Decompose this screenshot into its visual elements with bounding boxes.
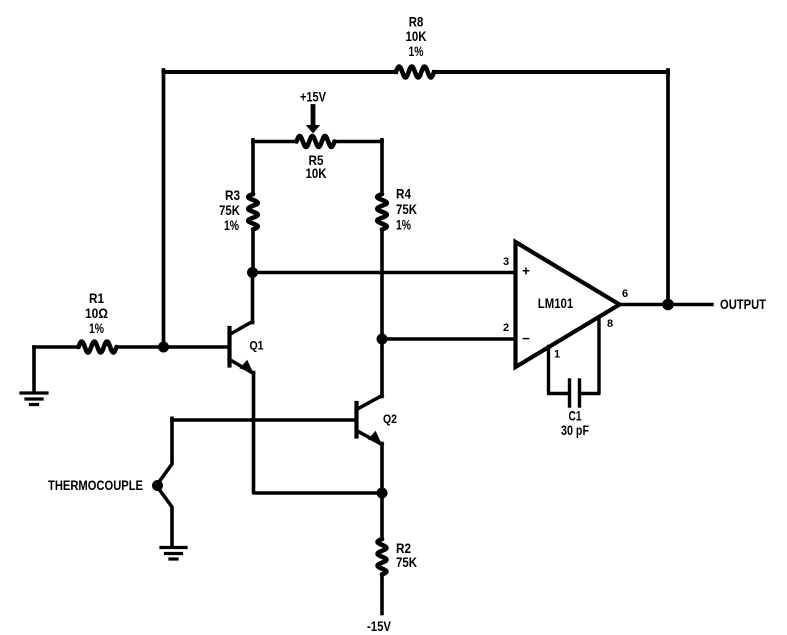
resistor R5 — [297, 136, 335, 147]
wire R2 top lead — [380, 493, 384, 539]
R5 value labels — [306, 153, 327, 181]
svg-text:75K: 75K — [396, 202, 417, 217]
svg-text:75K: 75K — [396, 555, 417, 570]
wire R5 right lead — [335, 140, 383, 144]
op-amp U1 LM101 — [516, 242, 620, 367]
R4 value labels — [396, 187, 417, 233]
svg-text:+15V: +15V — [300, 89, 327, 105]
svg-text:-15V: -15V — [367, 619, 392, 634]
svg-text:C1: C1 — [569, 409, 582, 424]
wire output — [620, 303, 713, 306]
node R4 / Q2 collector junction — [377, 334, 388, 345]
node output junction — [662, 299, 674, 311]
svg-text:R4: R4 — [396, 187, 411, 202]
resistor R3 — [248, 194, 258, 230]
wire R1 ground stem — [32, 347, 36, 392]
svg-text:2: 2 — [503, 322, 509, 334]
svg-text:LM101: LM101 — [538, 296, 574, 311]
resistor R8 — [396, 67, 434, 78]
node emitters / R2 junction — [377, 488, 388, 499]
svg-text:3: 3 — [503, 256, 509, 268]
svg-text:10K: 10K — [406, 29, 427, 44]
svg-text:THERMOCOUPLE: THERMOCOUPLE — [48, 478, 143, 493]
R1 value labels — [85, 291, 108, 336]
node thermocouple junction — [152, 480, 163, 491]
svg-text:10Ω: 10Ω — [85, 306, 108, 321]
svg-text:10K: 10K — [306, 166, 327, 181]
transistor Q2 — [357, 396, 383, 445]
svg-text:75K: 75K — [219, 203, 240, 218]
R8 value labels — [406, 15, 427, 60]
wire R2 bottom lead — [380, 575, 384, 614]
resistor R4 — [377, 194, 387, 230]
svg-text:R1: R1 — [89, 291, 104, 306]
wire Q1 emitter down and across — [254, 373, 383, 494]
+15V arrow (R5 wiper) — [306, 107, 320, 134]
ground (thermocouple) — [161, 548, 186, 560]
svg-text:Q1: Q1 — [250, 341, 265, 353]
node R3 bottom junction — [247, 267, 258, 278]
wire top feedback left segment — [164, 70, 397, 74]
R3 value labels — [219, 188, 240, 233]
svg-text:+: + — [522, 264, 530, 279]
svg-text:6: 6 — [622, 288, 628, 300]
svg-text:R2: R2 — [396, 541, 411, 556]
resistor R1 — [79, 342, 117, 353]
svg-text:1: 1 — [554, 349, 560, 361]
R2 value labels — [396, 541, 417, 570]
svg-text:1%: 1% — [409, 44, 424, 59]
transistor Q1 — [230, 322, 254, 374]
svg-text:OUTPUT: OUTPUT — [720, 297, 766, 312]
svg-text:1%: 1% — [224, 218, 239, 233]
ground (R1) — [21, 393, 47, 405]
wire R4 bottom lead — [380, 230, 384, 340]
wire Q1 collector — [251, 273, 255, 323]
capacitor C1 — [570, 380, 580, 406]
wire left feedback vertical — [162, 70, 166, 347]
node R1 feedback junction — [158, 342, 169, 353]
wire R3 top lead — [251, 140, 255, 194]
C1 value labels — [561, 409, 589, 439]
svg-text:8: 8 — [607, 318, 613, 330]
wire thermocouple to Q2 base — [172, 418, 355, 422]
wire R1 right lead to Q1 base — [117, 345, 229, 349]
svg-text:−: − — [522, 331, 530, 346]
wire Q2 emitter — [380, 444, 384, 494]
wire C1 right (pin 8) — [581, 318, 599, 394]
wire R4 top lead — [380, 140, 384, 194]
svg-text:1%: 1% — [89, 321, 104, 336]
wire top feedback right segment — [434, 70, 668, 74]
svg-text:Q2: Q2 — [383, 414, 397, 426]
svg-text:30 pF: 30 pF — [561, 423, 589, 438]
resistor R2 — [378, 539, 387, 575]
wire R1 left lead — [34, 345, 79, 349]
wire R3 bottom lead — [251, 230, 255, 273]
wire to op-amp pin 3 — [253, 271, 516, 274]
wire right feedback vertical — [666, 70, 670, 305]
wire thermocouple lower arm — [158, 487, 173, 547]
svg-text:R3: R3 — [225, 188, 240, 203]
wire Q2 collector — [380, 339, 384, 397]
wire C1 left (pin 1) — [549, 347, 569, 394]
svg-text:R8: R8 — [409, 15, 424, 30]
wire R5 left lead — [253, 140, 297, 144]
svg-text:1%: 1% — [396, 218, 411, 233]
wire to op-amp pin 2 — [382, 337, 516, 340]
wire thermocouple upper arm — [158, 418, 173, 484]
